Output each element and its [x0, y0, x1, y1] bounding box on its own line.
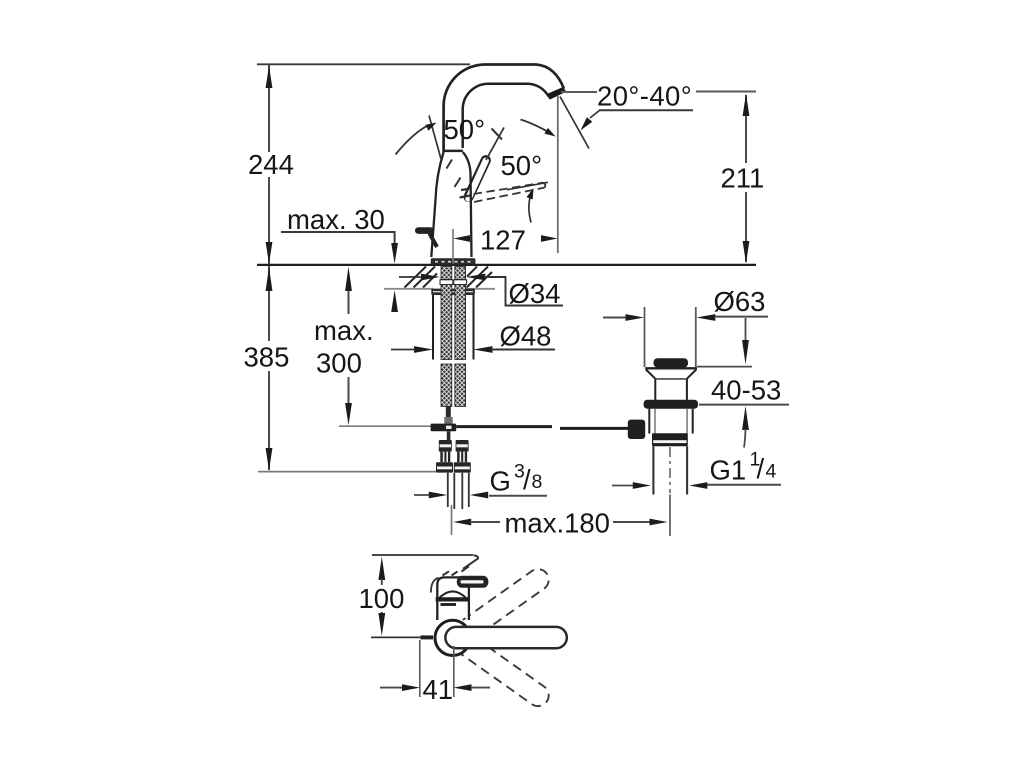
ext line 385 bottom [258, 471, 436, 473]
cross joint bar [431, 424, 457, 432]
deck line [257, 264, 756, 266]
drain cylinder left [654, 379, 656, 400]
deck bottom edge right [466, 288, 495, 290]
ext line 41 right [453, 646, 455, 697]
leader G114 left [612, 485, 634, 487]
arrow 211 top [743, 94, 750, 116]
leader Dia48 right [492, 349, 556, 351]
hose tail lines [448, 473, 469, 509]
arrow max30 down [391, 243, 398, 264]
svg-text:Ø48: Ø48 [500, 321, 552, 352]
svg-text:max. 30: max. 30 [287, 204, 385, 235]
drain cylinder right [686, 379, 688, 400]
lever inner dash a [460, 196, 471, 198]
arrow 385 bottom [266, 448, 273, 471]
arc arrow 50 lower [527, 188, 534, 200]
arrow Dia34 right [466, 274, 485, 281]
side lever knob [418, 227, 430, 234]
connector left nut slit [440, 444, 451, 447]
body tilt dash 1 [447, 160, 453, 169]
svg-text:G1: G1 [710, 455, 747, 486]
dashed lever capsule up [441, 565, 552, 653]
underline G114 [704, 484, 781, 486]
plan lever [457, 576, 489, 588]
arrow 244 top [266, 66, 273, 89]
drain rim slit [653, 440, 686, 443]
connector right nut slit [456, 444, 467, 447]
svg-text:244: 244 [248, 149, 294, 180]
lever cross mark [492, 129, 503, 140]
dashed lever horizontal top edge [474, 183, 544, 194]
arrow Dia48 right [474, 346, 493, 353]
plan housing left wall [436, 601, 438, 620]
ext line max300 bottom [339, 425, 441, 427]
leader 20-40 [590, 110, 600, 118]
shank tube right wall [473, 295, 475, 360]
plan spout diagonal short [462, 566, 470, 571]
dashed lever tilt line [429, 116, 441, 160]
arrow max300 top [345, 267, 352, 291]
arc arrow 50 top-right [544, 128, 555, 137]
arrow Dia63 left [626, 314, 645, 321]
plan housing left arc [431, 578, 439, 593]
underline 20-40 [599, 109, 693, 111]
arrow Dia63 right [696, 314, 715, 321]
drain body outer right [692, 409, 694, 434]
drain body outer left [648, 409, 650, 434]
svg-text:G: G [490, 466, 511, 497]
lever inner dash b [461, 189, 468, 190]
svg-text:max.: max. [314, 315, 374, 346]
ref line 20-40 left [561, 91, 597, 93]
drain flare bottom [655, 378, 687, 380]
arrow G114 right [689, 482, 707, 489]
dim line Dia63 [715, 316, 769, 318]
plan top dash b [452, 572, 458, 576]
svg-text:50°: 50° [444, 114, 486, 145]
plan bottom ext line [371, 636, 421, 638]
drain cap [654, 358, 689, 367]
dim line 100 lower [381, 612, 383, 616]
svg-text:300: 300 [316, 348, 362, 379]
arrow max180 left [453, 519, 471, 526]
svg-text:Ø34: Ø34 [509, 278, 561, 309]
leader Dia48 left [391, 349, 415, 351]
arrow 100 top [378, 557, 385, 580]
drain ext line right [695, 307, 697, 367]
stud nut left [440, 280, 453, 285]
svg-text:211: 211 [721, 163, 765, 194]
arrow G38 right [470, 492, 489, 499]
bottom nut left slit [437, 467, 452, 470]
arrow 100 bottom [378, 613, 385, 636]
leader Dia34 left [399, 276, 422, 278]
stud right main [455, 285, 466, 360]
drain bottom rim [652, 433, 688, 446]
arrow 127 right [541, 235, 558, 242]
side lever link [430, 234, 438, 248]
leader arrow 20-40 [581, 117, 593, 130]
svg-text:50°: 50° [501, 150, 543, 181]
svg-text:100: 100 [359, 583, 405, 614]
arrow 41 right [454, 684, 472, 691]
arrow 127 left [454, 235, 471, 242]
dim line 244/385 vertical [268, 65, 270, 470]
arrow max30 up (below deck) [391, 290, 398, 312]
stud right upper [455, 267, 466, 280]
ext line 127 left [452, 229, 454, 264]
dim line max300 vertical [348, 291, 350, 403]
leader 41 right [471, 687, 490, 689]
shank tube left wall [432, 295, 434, 360]
connector left top nut [439, 440, 452, 452]
plan top ext line [372, 554, 473, 556]
ext line from spout tip vertical [557, 96, 559, 253]
plan hidden dash [441, 603, 457, 606]
plan spout diagonal long [463, 555, 478, 569]
arrow max300 bottom [345, 403, 352, 425]
base flange [431, 259, 475, 265]
plan escutcheon circle [435, 620, 470, 655]
leader Dia63 left [603, 317, 627, 319]
arrow G38 left [429, 492, 448, 499]
arrow 211 bottom [743, 241, 750, 263]
tailpipe centerline ext [669, 495, 671, 537]
drain flange top [645, 367, 697, 369]
drain gasket [644, 400, 698, 409]
spout outer curve [444, 65, 564, 153]
dim tail 40-53 upper [745, 318, 747, 341]
pop-up rod segment 1 [456, 425, 552, 428]
drain body inner right [686, 409, 688, 434]
underline G38 [489, 495, 547, 497]
dim line 100 upper [381, 579, 383, 585]
spout outlet cut face [546, 87, 566, 100]
cross joint upper block [444, 417, 452, 424]
arrow 41 left [402, 684, 420, 691]
svg-text:41: 41 [423, 674, 454, 705]
underline max30 [281, 232, 395, 246]
tailpipe left wall [652, 446, 654, 494]
connector left body [440, 452, 450, 463]
spout inner curve [463, 84, 549, 148]
outlet fan line [560, 97, 589, 149]
dashed lever tip [543, 183, 545, 188]
svg-text:/: / [757, 453, 765, 484]
stud nut right [454, 280, 467, 285]
solid lever capsule [445, 627, 566, 648]
tailpipe centerline [669, 447, 671, 493]
arc arrow 50 top-left [425, 123, 436, 131]
ext line max180 left [451, 505, 453, 535]
svg-text:385: 385 [244, 342, 290, 373]
ref line 20-40 right [696, 91, 756, 93]
dashed lever capsule down [441, 623, 552, 711]
dim line max180 right [613, 521, 651, 523]
solid lever outline [469, 160, 486, 197]
lever axis ext right [507, 182, 548, 190]
leader Dia34 right [485, 277, 564, 306]
svg-text:127: 127 [480, 225, 526, 256]
body right edge [463, 152, 472, 257]
plan housing outline [437, 577, 469, 620]
plan dome arc [439, 591, 467, 598]
deck bottom edge left [384, 288, 433, 290]
drain body inner left [654, 409, 656, 434]
ext line 41 left [419, 640, 421, 697]
body left edge [431, 152, 443, 257]
leader 41 left [380, 687, 403, 689]
underline 40-53 [699, 404, 789, 406]
arrow 244 bottom [266, 242, 273, 264]
svg-text:4: 4 [766, 461, 777, 483]
plan spout tip bar [421, 635, 434, 639]
leader G38 left [414, 494, 430, 496]
tailpipe right wall [686, 446, 688, 494]
arrow Dia48 left [414, 346, 433, 353]
hose left [441, 364, 452, 407]
plan split band [436, 597, 470, 601]
svg-text:Ø63: Ø63 [714, 286, 766, 317]
ref line 40-53 top [697, 366, 752, 368]
svg-text:/: / [523, 464, 531, 495]
arc leader 50 lower [529, 193, 532, 223]
bottom nut left [436, 462, 453, 472]
arc leader 50 top-right [521, 120, 548, 132]
solid lever fill [468, 161, 485, 199]
hose right [455, 364, 466, 407]
dashed lever horizontal bottom edge [474, 188, 545, 202]
connector right body [457, 452, 467, 463]
svg-text:8: 8 [532, 471, 543, 493]
washer slit [433, 291, 473, 293]
deck hatch left [405, 267, 438, 288]
arrow G114 left [633, 482, 651, 489]
arc leader 50 top-left [396, 125, 430, 155]
svg-text:max.180: max.180 [505, 508, 610, 539]
dim tail 40-53 lower [744, 429, 746, 448]
arrow max180 right [650, 519, 668, 526]
pop-up rod segment 2 [560, 427, 629, 430]
cross joint pin [447, 431, 451, 440]
plan top dash a [443, 571, 450, 575]
dim line max180 left [470, 521, 500, 523]
drain ext line left [644, 307, 646, 367]
bottom nut right [454, 462, 471, 472]
top reference line [257, 63, 470, 65]
arrow 40-53 up [742, 406, 749, 430]
dim line 211 [745, 95, 747, 262]
neck line [444, 150, 463, 153]
drain flare right [687, 369, 697, 378]
stud left main [441, 285, 452, 360]
mounting washer [431, 289, 475, 295]
drain clamp knob [628, 420, 645, 439]
connector right top nut [456, 440, 469, 452]
body tilt dash 2 [455, 178, 461, 188]
cross joint slot [446, 426, 452, 429]
svg-text:20°-40°: 20°-40° [597, 81, 692, 112]
arrow 385 top [266, 267, 273, 291]
stud left upper [441, 267, 452, 280]
svg-text:40-53: 40-53 [711, 375, 781, 406]
arrow Dia34 left [421, 274, 440, 281]
drain flare left [646, 369, 656, 378]
deck hatch right [467, 267, 493, 288]
pull rod upper [446, 407, 451, 419]
bottom nut right slit [455, 467, 470, 470]
base flange ticks [435, 261, 471, 263]
arrow 40-53 down [742, 340, 749, 364]
lever axis line [486, 128, 504, 161]
